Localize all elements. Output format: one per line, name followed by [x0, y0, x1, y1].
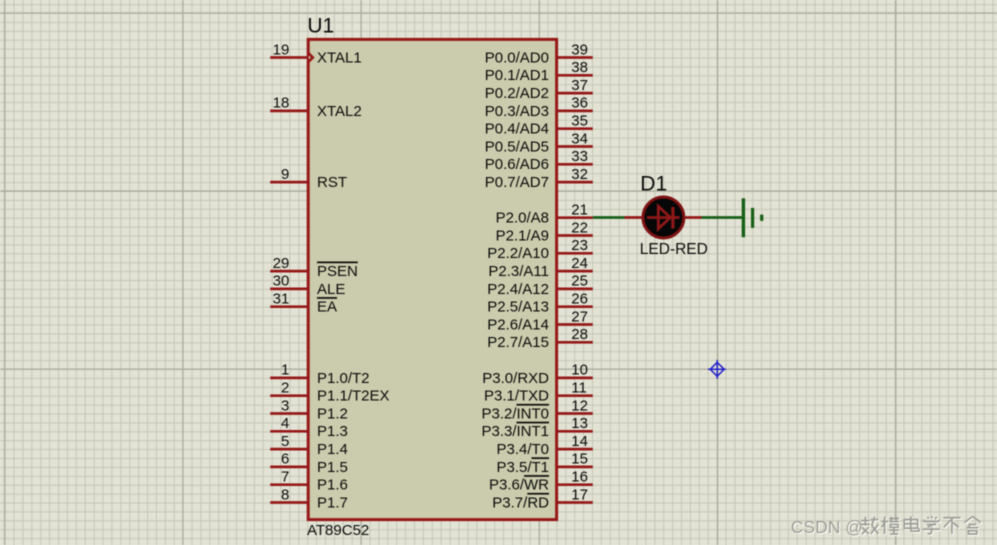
svg-text:P0.1/AD1: P0.1/AD1	[485, 67, 549, 84]
pin 3 (P1.2) left	[270, 397, 348, 422]
svg-text:XTAL2: XTAL2	[317, 103, 362, 120]
svg-text:P1.3: P1.3	[317, 423, 348, 440]
svg-text:29: 29	[273, 255, 290, 272]
pin 34 (P0.5/AD5) right	[485, 130, 593, 155]
pin 1 (P1.0/T2) left	[270, 362, 369, 387]
svg-text:P2.4/A12: P2.4/A12	[487, 281, 549, 298]
svg-text:12: 12	[571, 397, 588, 414]
pin 25 (P2.4/A12) right	[487, 273, 593, 298]
pin 12 (P3.2/INT0) right	[481, 397, 592, 422]
pin 27 (P2.6/A14) right	[487, 308, 593, 333]
svg-text:30: 30	[273, 273, 290, 290]
svg-text:13: 13	[571, 415, 588, 432]
svg-text:35: 35	[571, 113, 588, 130]
value label LED-RED	[640, 241, 708, 258]
reference label U1	[307, 15, 334, 38]
svg-text:P0.5/AD5: P0.5/AD5	[485, 138, 549, 155]
svg-text:14: 14	[571, 433, 588, 450]
svg-text:10: 10	[571, 362, 588, 379]
svg-text:CSDN @: CSDN @	[791, 517, 863, 537]
svg-text:P3.4/T0: P3.4/T0	[496, 441, 549, 458]
svg-text:RST: RST	[317, 174, 347, 191]
pin 5 (P1.4) left	[270, 433, 348, 458]
pin 19 (XTAL1) left	[270, 41, 362, 66]
reference label D1	[640, 173, 667, 196]
pin 39 (P0.0/AD0) right	[485, 41, 593, 66]
svg-text:P0.2/AD2: P0.2/AD2	[485, 85, 549, 102]
pin 36 (P0.3/AD3) right	[485, 95, 593, 120]
svg-text:15: 15	[571, 451, 588, 468]
svg-text:P0.7/AD7: P0.7/AD7	[485, 174, 549, 191]
svg-text:P1.2: P1.2	[317, 405, 348, 422]
pin 37 (P0.2/AD2) right	[485, 77, 593, 102]
svg-text:P1.1/T2EX: P1.1/T2EX	[317, 388, 390, 405]
pin 9 (RST) left	[270, 166, 347, 191]
pin 30 (ALE) left	[270, 273, 345, 298]
svg-text:PSEN: PSEN	[317, 263, 358, 280]
pin 24 (P2.3/A11) right	[488, 255, 592, 280]
svg-text:22: 22	[571, 219, 588, 236]
svg-text:P2.6/A14: P2.6/A14	[487, 316, 549, 333]
svg-text:P0.3/AD3: P0.3/AD3	[485, 103, 549, 120]
svg-text:P3.1/TXD: P3.1/TXD	[484, 388, 549, 405]
pin 38 (P0.1/AD1) right	[485, 59, 593, 84]
pin 15 (P3.5/T1) right	[496, 451, 592, 476]
svg-text:P0.0/AD0: P0.0/AD0	[485, 49, 549, 66]
svg-text:17: 17	[571, 486, 588, 503]
svg-text:18: 18	[273, 95, 290, 112]
pin 11 (P3.1/TXD) right	[484, 380, 593, 405]
pin 2 (P1.1/T2EX) left	[270, 380, 389, 405]
svg-text:P1.0/T2: P1.0/T2	[317, 370, 370, 387]
svg-text:9: 9	[281, 166, 289, 183]
svg-text:P3.7/RD: P3.7/RD	[492, 494, 549, 511]
ground symbol	[743, 198, 761, 237]
svg-text:28: 28	[571, 326, 588, 343]
svg-text:P0.6/AD6: P0.6/AD6	[485, 156, 549, 173]
svg-text:19: 19	[273, 41, 290, 58]
pin 8 (P1.7) left	[270, 486, 348, 511]
svg-text:23: 23	[571, 237, 588, 254]
svg-text:16: 16	[571, 469, 588, 486]
svg-text:P3.3/INT1: P3.3/INT1	[481, 423, 549, 440]
svg-text:P2.5/A13: P2.5/A13	[487, 299, 549, 316]
pin 10 (P3.0/RXD) right	[482, 362, 593, 387]
svg-text:6: 6	[281, 451, 289, 468]
svg-text:2: 2	[281, 380, 289, 397]
svg-text:U1: U1	[307, 15, 334, 38]
pin 21 (P2.0/A8) right	[496, 202, 593, 227]
pin 35 (P0.4/AD4) right	[485, 113, 593, 138]
svg-text:36: 36	[571, 95, 588, 112]
svg-text:4: 4	[281, 415, 289, 432]
wire P2.0 pin 21 to D1 anode	[593, 216, 625, 219]
svg-text:27: 27	[571, 308, 588, 325]
origin marker (blue)	[708, 360, 726, 379]
svg-text:P1.6: P1.6	[317, 477, 348, 494]
svg-text:24: 24	[571, 255, 588, 272]
pin 32 (P0.7/AD7) right	[485, 166, 593, 191]
LED D1 (LED-RED)	[625, 197, 702, 238]
svg-text:3: 3	[281, 397, 289, 414]
svg-text:33: 33	[571, 148, 588, 165]
svg-text:P2.3/A11: P2.3/A11	[488, 263, 549, 280]
svg-text:LED-RED: LED-RED	[640, 241, 708, 258]
pin 31 (EA) left	[270, 291, 337, 316]
pin 29 (PSEN) left	[270, 255, 358, 280]
pin 14 (P3.4/T0) right	[496, 433, 592, 458]
svg-text:XTAL1: XTAL1	[317, 49, 362, 66]
svg-text:P3.5/T1: P3.5/T1	[496, 459, 549, 476]
svg-text:1: 1	[281, 362, 289, 379]
svg-text:P0.4/AD4: P0.4/AD4	[485, 121, 549, 138]
svg-text:11: 11	[571, 380, 587, 397]
pin 16 (P3.6/WR) right	[489, 469, 593, 494]
svg-text:21: 21	[571, 202, 588, 219]
pin 28 (P2.7/A15) right	[487, 326, 593, 351]
svg-text:D1: D1	[640, 173, 667, 196]
pin 4 (P1.3) left	[270, 415, 348, 440]
svg-text:P1.4: P1.4	[317, 441, 348, 458]
svg-text:AT89C52: AT89C52	[307, 522, 369, 539]
svg-text:P3.2/INT0: P3.2/INT0	[481, 405, 549, 422]
pin 7 (P1.6) left	[270, 469, 348, 494]
svg-text:P2.0/A8: P2.0/A8	[496, 210, 549, 227]
wire D1 cathode to ground	[702, 216, 743, 219]
svg-text:P1.5: P1.5	[317, 459, 348, 476]
svg-text:P2.2/A10: P2.2/A10	[487, 245, 549, 262]
svg-text:26: 26	[571, 291, 588, 308]
svg-text:P1.7: P1.7	[317, 494, 348, 511]
watermark CSDN @数模电学不会	[791, 516, 982, 538]
pin 22 (P2.1/A9) right	[496, 219, 593, 244]
svg-text:P2.7/A15: P2.7/A15	[487, 334, 549, 351]
svg-text:P2.1/A9: P2.1/A9	[496, 227, 549, 244]
svg-text:39: 39	[571, 41, 588, 58]
svg-text:5: 5	[281, 433, 289, 450]
pin 13 (P3.3/INT1) right	[481, 415, 592, 440]
pin 26 (P2.5/A13) right	[487, 291, 593, 316]
svg-text:P3.0/RXD: P3.0/RXD	[482, 370, 549, 387]
svg-text:31: 31	[273, 291, 290, 308]
IC U1 body (AT89C52)	[308, 39, 556, 519]
pin 6 (P1.5) left	[270, 451, 348, 476]
svg-text:32: 32	[571, 166, 588, 183]
pin 23 (P2.2/A10) right	[487, 237, 593, 262]
svg-text:7: 7	[281, 469, 289, 486]
svg-text:ALE: ALE	[317, 281, 345, 298]
svg-text:37: 37	[571, 77, 588, 94]
svg-text:EA: EA	[317, 299, 337, 316]
pin 33 (P0.6/AD6) right	[485, 148, 593, 173]
pin 18 (XTAL2) left	[270, 95, 362, 120]
svg-text:8: 8	[281, 486, 289, 503]
svg-text:P3.6/WR: P3.6/WR	[489, 477, 549, 494]
svg-text:38: 38	[571, 59, 588, 76]
pin 17 (P3.7/RD) right	[492, 486, 593, 511]
svg-text:25: 25	[571, 273, 588, 290]
svg-text:34: 34	[571, 130, 588, 147]
value label AT89C52	[307, 522, 369, 539]
